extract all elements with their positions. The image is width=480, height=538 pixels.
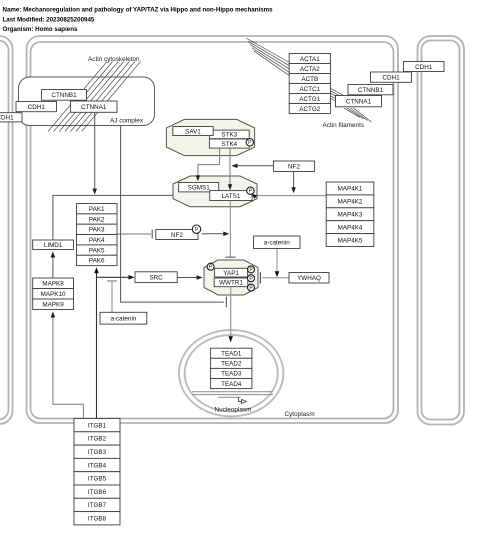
svg-text:MAP4K4: MAP4K4	[338, 224, 363, 231]
gene box WWTR1	[214, 278, 248, 287]
gene box MAP4K4	[326, 221, 374, 234]
svg-text:ITGB4: ITGB4	[88, 462, 107, 469]
svg-text:LIMD1: LIMD1	[44, 242, 63, 249]
complex SAV1/STK3/STK4 octagon	[166, 119, 254, 155]
gene box ACTB	[289, 74, 330, 84]
gene box CTNNA1 (AJ)	[71, 101, 118, 112]
edge AJ complex inhibits YAP nuclear entry (T-bar)	[121, 126, 227, 307]
gene box LIMD1	[33, 240, 74, 250]
gene box SAV1	[173, 127, 213, 136]
gene box PAK1	[77, 204, 118, 214]
svg-text:ITGB2: ITGB2	[88, 436, 107, 443]
svg-text:Organism: Homo sapiens: Organism: Homo sapiens	[3, 26, 79, 33]
svg-text:YAP1: YAP1	[223, 270, 239, 277]
label Actin filaments	[323, 122, 365, 129]
gene box NF2 upper	[274, 161, 315, 172]
label Nucleoplasm	[215, 407, 252, 414]
svg-text:MAP4K3: MAP4K3	[338, 212, 363, 219]
svg-text:CTNNB1: CTNNB1	[358, 87, 384, 94]
edge YWHAQ inhibits YAP complex (T-bar)	[260, 272, 289, 283]
left cell membrane	[0, 36, 13, 424]
svg-text:Actin cytoskeleton: Actin cytoskeleton	[88, 56, 140, 63]
svg-text:ACTC1: ACTC1	[299, 86, 320, 93]
gene box ITGB5	[74, 472, 120, 485]
svg-text:STK4: STK4	[221, 141, 237, 148]
gene box SGMS1	[179, 183, 219, 192]
gene box ITGB6	[74, 485, 120, 498]
svg-text:Actin filaments: Actin filaments	[323, 122, 365, 129]
svg-text:MAPK10: MAPK10	[41, 291, 66, 298]
phosphorylation P on NF2	[192, 225, 200, 233]
gene box PAK3	[77, 224, 118, 234]
svg-text:MAP4K5: MAP4K5	[338, 237, 363, 244]
svg-text:ITGB3: ITGB3	[88, 449, 107, 456]
complex SGMS1/LATS1 octagon	[173, 176, 257, 207]
transcription arrow glyph	[218, 397, 246, 403]
edge CTNNA1 to LATS line (arrow)	[92, 113, 97, 195]
svg-text:ACTG1: ACTG1	[299, 96, 320, 103]
svg-text:a-catenin: a-catenin	[264, 240, 290, 247]
gene box PAK5	[77, 245, 118, 255]
svg-text:TEAD1: TEAD1	[221, 351, 242, 358]
edge ITGB1 activates MAPK9 (elbow arrow)	[51, 312, 84, 420]
phosphorylation P on STK4	[246, 139, 253, 147]
gene box ACTG1	[289, 94, 330, 104]
gene box MAPK9	[33, 299, 74, 310]
gene box ACTC1	[289, 84, 330, 94]
edge YAP complex to TEAD (arrow)	[228, 287, 233, 342]
gene box a-catenin right	[254, 236, 301, 249]
svg-text:PAK1: PAK1	[89, 206, 105, 213]
svg-text:NF2: NF2	[171, 232, 183, 239]
gene box CTNNB1 (AJ)	[42, 90, 87, 101]
phosphorylation P middle right	[248, 275, 255, 282]
edge MAPK8 activates LIMD1 (arrow)	[51, 252, 56, 279]
svg-text:CTNNA1: CTNNA1	[346, 98, 372, 105]
actin filament hatching top-left	[48, 62, 141, 132]
svg-text:CDH1: CDH1	[0, 115, 14, 122]
gene box TEAD3	[211, 368, 252, 378]
gene box CTNNB1 right	[348, 85, 393, 95]
gene box ITGB1	[74, 419, 120, 432]
edge ITGB1 activates SRC (arrow)	[97, 275, 135, 280]
svg-text:WWTR1: WWTR1	[219, 280, 243, 287]
gene box ITGB4	[74, 458, 120, 471]
svg-text:MAPK8: MAPK8	[42, 281, 64, 288]
gene box SRC	[135, 272, 177, 283]
svg-text:SGMS1: SGMS1	[188, 184, 211, 191]
gene box ITGB3	[74, 445, 120, 458]
edge SRC activates YAP complex (arrow)	[177, 275, 202, 280]
phosphorylation P on WWTR1 right	[248, 284, 255, 291]
svg-text:AJ complex: AJ complex	[110, 118, 144, 125]
gene box PAK4	[77, 235, 118, 245]
arrowhead MAP4K onto LATS1 P	[252, 194, 258, 199]
gene box MAPK8	[33, 278, 74, 289]
gene box ITGB7	[74, 498, 120, 511]
gene box ACTA2	[289, 64, 330, 74]
gene box CDH1 (AJ)	[16, 102, 57, 112]
title text Last Modified	[3, 16, 95, 23]
svg-text:ACTA1: ACTA1	[300, 56, 320, 63]
svg-text:MAPK9: MAPK9	[42, 302, 64, 309]
gene box CTNNA1 right	[336, 96, 382, 107]
actin filament hatching below CTNNA1 right	[344, 108, 372, 122]
nucleus membrane	[179, 330, 283, 416]
gene box MAP4K1	[326, 182, 374, 195]
svg-text:Last Modified: 20230825200945: Last Modified: 20230825200945	[3, 16, 95, 23]
svg-text:MAP4K1: MAP4K1	[338, 186, 363, 193]
title text Name	[3, 7, 274, 14]
gene box a-catenin left	[100, 312, 147, 324]
edge ITGB1 activates PAK (arrow)	[94, 267, 99, 419]
svg-text:ACTG2: ACTG2	[299, 106, 320, 113]
gene box CDH1 right outer	[404, 62, 445, 72]
complex YAP1/WWTR1 octagon	[204, 260, 258, 295]
gene box LATS1	[210, 191, 252, 201]
edge STK3/4 activates LATS1 (arrow)	[228, 148, 233, 190]
svg-text:PAK6: PAK6	[89, 258, 105, 265]
label AJ complex	[110, 118, 144, 125]
gene box MAP4K2	[326, 195, 374, 208]
svg-text:SAV1: SAV1	[185, 128, 201, 135]
actin filament hatching into ACTA stack	[246, 38, 290, 76]
svg-text:TEAD3: TEAD3	[221, 371, 242, 378]
gene box STK4	[209, 139, 249, 148]
edge STK3/4 activates SGMS1 (elbow arrow)	[196, 148, 220, 181]
right cell membrane	[418, 36, 465, 425]
label Cytoplasm	[285, 411, 315, 418]
svg-text:CDH1: CDH1	[382, 74, 400, 81]
svg-text:Name: Mechanoregulation and pa: Name: Mechanoregulation and pathology of…	[3, 7, 274, 14]
svg-text:ACTA2: ACTA2	[300, 66, 320, 73]
svg-text:CDH1: CDH1	[28, 104, 46, 111]
svg-text:LATS1: LATS1	[222, 193, 241, 200]
gene box TEAD1	[211, 348, 252, 358]
gene box PAK2	[77, 214, 118, 224]
svg-text:ITGB5: ITGB5	[88, 476, 107, 483]
gene box ITGB8	[74, 512, 120, 525]
svg-text:CTNNA1: CTNNA1	[81, 104, 107, 111]
svg-text:TEAD4: TEAD4	[221, 381, 242, 388]
svg-text:ITGB1: ITGB1	[88, 422, 107, 429]
gene box TEAD2	[211, 358, 252, 368]
svg-text:Nucleoplasm: Nucleoplasm	[215, 407, 252, 414]
main cell membrane	[27, 36, 399, 423]
edge NF2 activates MAP4K-LATS edge (arrow)	[291, 172, 296, 194]
svg-text:STK3: STK3	[221, 132, 237, 139]
actin filament hatching stack to CTNNA1	[331, 88, 345, 105]
edge LIMD1 inhibits LATS1 (T-bar)	[53, 192, 205, 240]
svg-text:ITGB6: ITGB6	[88, 489, 107, 496]
svg-text:YWHAQ: YWHAQ	[297, 275, 321, 282]
svg-text:ACTB: ACTB	[301, 76, 318, 83]
svg-text:NF2: NF2	[288, 164, 300, 171]
phosphorylation P on YAP1 left	[207, 263, 214, 270]
svg-text:CDH1: CDH1	[415, 64, 433, 71]
svg-text:MAP4K2: MAP4K2	[338, 199, 363, 206]
svg-text:CTNNB1: CTNNB1	[51, 92, 77, 99]
edge LATS1 inhibits YAP complex (T-bar)	[225, 201, 235, 258]
edge MAP4K activates LATS1-P (arrow)	[258, 195, 327, 197]
gene box MAPK10	[33, 289, 74, 300]
phosphorylation P on YAP1 right	[248, 266, 255, 273]
edge a-catenin inhibits SRC edge (T-bar)	[107, 281, 117, 312]
gene box STK3	[209, 130, 249, 139]
gene box NF2 lower	[156, 230, 198, 240]
gene box TEAD4	[211, 379, 252, 389]
edge NF2 activates STK-LATS edge (arrow)	[232, 164, 274, 169]
svg-text:a-catenin: a-catenin	[110, 315, 136, 322]
gene box MAP4K3	[326, 208, 374, 221]
gene box CDH1 neighbour cell left	[0, 113, 22, 122]
gene box YWHAQ	[289, 273, 329, 284]
gene box ITGB2	[74, 432, 120, 445]
svg-text:PAK4: PAK4	[89, 237, 105, 244]
edge PAK inhibits NF2 (T-bar)	[117, 230, 152, 239]
title text Organism	[3, 26, 79, 33]
gene box ACTA1	[289, 54, 330, 64]
svg-text:ITGB8: ITGB8	[88, 516, 107, 523]
gene box YAP1	[215, 268, 248, 277]
svg-text:PAK3: PAK3	[89, 227, 105, 234]
svg-text:SRC: SRC	[149, 274, 163, 281]
edge NF2 activates LATS-YAP edge (arrow)	[202, 232, 230, 237]
svg-text:PAK2: PAK2	[89, 216, 105, 223]
edge a-catenin activates YWHAQ binding (arrow)	[275, 249, 280, 278]
svg-text:ITGB7: ITGB7	[88, 502, 107, 509]
gene box PAK6	[77, 255, 118, 265]
gene box MAP4K5	[326, 234, 374, 247]
gene box CDH1 right inner	[371, 72, 412, 82]
gene box ACTG2	[289, 104, 330, 114]
svg-text:TEAD2: TEAD2	[221, 361, 242, 368]
DNA double line	[192, 392, 273, 395]
phosphorylation P on LATS1	[247, 187, 254, 195]
AJ complex container	[19, 77, 155, 126]
svg-text:PAK5: PAK5	[89, 247, 105, 254]
svg-text:Cytoplasm: Cytoplasm	[285, 411, 315, 418]
label Actin cytoskeleton	[88, 56, 140, 63]
